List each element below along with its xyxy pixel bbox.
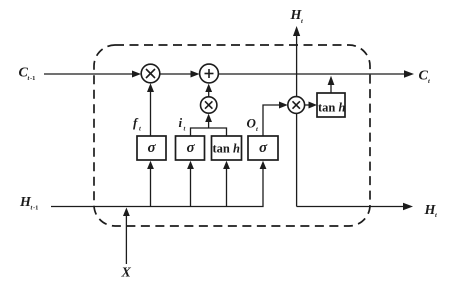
svg-text:O: O [247,116,257,131]
wire: vertical H_t output rising to top (through X3 node) [293,26,300,207]
label i_t [179,115,186,133]
wire: X3 to tanh output box [305,102,317,109]
gate O_t: sigma box [248,136,278,160]
svg-text:σ: σ [186,140,195,156]
gate i_t: sigma box [176,136,205,160]
svg-text:t: t [139,126,141,133]
svg-text:t: t [184,126,186,133]
multiply node X1 (forget gate product) [141,64,160,83]
wire: H_{t-1} input line ending at O gate column [51,161,266,207]
label H_t (right) [424,203,438,219]
label C_{t-1} [19,66,36,83]
svg-text:tan h: tan h [213,142,241,156]
svg-text:C: C [419,69,429,84]
wire: H_t output to the right [297,203,413,211]
label X [121,266,132,281]
svg-text:t: t [435,212,437,219]
wire: branch up to tanh gate [223,161,230,207]
wire: add node to C_t output (crosses H-up line and boundary) [218,70,414,78]
connector: i gate and tanh merge up to X2 [191,114,227,136]
svg-text:σ: σ [259,140,268,156]
wire: C input from C_{t-1} to multiply node [44,71,141,78]
svg-text:σ: σ [147,140,156,156]
wire: X input rising to H line [123,208,130,265]
tanh output box [317,93,346,117]
label O_t [247,116,259,134]
wire: branch up to i gate [187,161,194,207]
multiply node X3 (output gate product) [288,97,305,114]
svg-text:X: X [121,266,132,281]
label C_t [419,69,431,86]
add node + [200,64,219,83]
svg-text:i: i [179,115,183,130]
svg-text:-1: -1 [30,75,35,82]
wire: tanh box up to C line [328,76,335,93]
wire: O gate up and right into X3 [263,102,288,137]
svg-text:-1: -1 [33,205,38,212]
svg-text:t: t [256,126,258,133]
svg-text:t: t [428,78,430,85]
multiply node X2 (input gate product) [201,97,217,113]
label H_t (top) [290,8,304,25]
label H_{t-1} [19,195,38,212]
wire: X2 up to add node [205,84,212,97]
wire: branch up to f gate [147,161,154,207]
gate f_t: sigma box [137,136,166,160]
label f_t [133,115,141,133]
svg-text:t: t [301,18,303,25]
wire: X1 to add node [160,71,200,78]
wire: f gate up to X1 [147,83,154,136]
svg-text:tan h: tan h [318,101,346,115]
gate candidate: tan h box [212,136,242,160]
cell boundary (dashed rounded rectangle) [94,45,370,226]
